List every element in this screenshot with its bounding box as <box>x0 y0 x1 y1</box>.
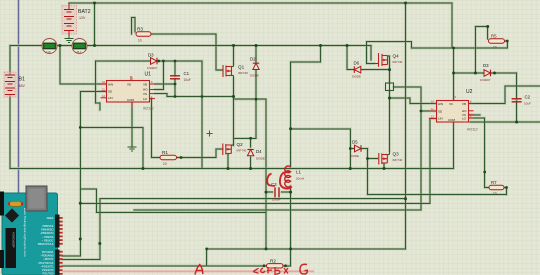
svg-text:1N4007: 1N4007 <box>147 66 158 70</box>
ammeter meter1 <box>42 39 57 55</box>
junction dot rail x143 <box>142 167 145 170</box>
junction dot D4 top <box>249 137 252 140</box>
svg-text:PD2/INT0: PD2/INT0 <box>42 268 54 272</box>
capacitor C2 <box>512 95 531 106</box>
junction dot x80 <box>79 126 82 129</box>
svg-text:COM: COM <box>127 98 135 102</box>
svg-text:100uF: 100uF <box>272 198 281 202</box>
junction dot L1 D5 row <box>289 127 292 130</box>
svg-text:PD1/TXD: PD1/TXD <box>43 272 54 275</box>
svg-text:R2: R2 <box>270 259 276 264</box>
resistor R1 <box>160 150 177 166</box>
fuse <box>386 82 394 93</box>
junction dot C2 bottom <box>515 121 518 124</box>
junction dot meters <box>59 44 62 47</box>
svg-text:IRF740: IRF740 <box>393 158 403 162</box>
svg-text:DIODE: DIODE <box>350 154 359 158</box>
svg-text:B1: B1 <box>19 77 25 83</box>
svg-text:R1: R1 <box>162 150 168 155</box>
svg-text:D2: D2 <box>250 57 256 62</box>
capacitor C1 <box>170 71 191 82</box>
junction dot rail Q3 <box>383 167 386 170</box>
junction dot rail Q2 <box>227 167 230 170</box>
svg-text:U2: U2 <box>466 89 473 95</box>
svg-text:Q2: Q2 <box>237 142 244 147</box>
battery B1 <box>4 72 25 97</box>
battery BAT2 <box>62 3 91 36</box>
junction dot x406 top <box>404 2 407 5</box>
svg-text:LIN: LIN <box>438 117 443 121</box>
svg-text:VB: VB <box>462 102 466 106</box>
junction dot Q1 drain <box>232 44 235 47</box>
svg-text:10uF: 10uF <box>524 102 531 106</box>
svg-text:D6: D6 <box>354 61 360 66</box>
junction dot fuse bottom <box>388 97 391 100</box>
resistor R3 <box>136 27 151 43</box>
svg-text:12V: 12V <box>79 16 86 20</box>
diode D4 <box>247 149 265 161</box>
junction dot U2 SD riser <box>420 110 423 113</box>
svg-text:PB5/SCK: PB5/SCK <box>43 224 54 228</box>
svg-text:1N4007: 1N4007 <box>480 78 491 82</box>
svg-text:~ PB1/OC: ~ PB1/OC <box>42 238 54 242</box>
svg-text:~PD5/T1: ~PD5/T1 <box>43 257 54 261</box>
origin marker cross <box>207 131 213 137</box>
svg-text:COM: COM <box>448 118 456 122</box>
svg-text:PD7/AIN1: PD7/AIN1 <box>42 250 54 254</box>
pin header strip upper <box>55 215 60 248</box>
svg-text:10: 10 <box>493 192 497 196</box>
junction dot D2 node <box>255 98 258 101</box>
svg-text:+48.0: +48.0 <box>75 51 82 54</box>
svg-text:Q1: Q1 <box>238 65 245 70</box>
svg-text:HIN: HIN <box>108 82 113 86</box>
junction dot C1 top <box>174 60 177 63</box>
diode D3 right <box>480 63 491 82</box>
svg-text:PB4/MISO: PB4/MISO <box>41 228 53 232</box>
svg-text:IR2112: IR2112 <box>143 107 154 111</box>
junction dot top rail <box>93 2 96 5</box>
svg-text:HIN: HIN <box>438 102 443 106</box>
junction dot D3R node <box>493 72 496 75</box>
junction dot x290 bottom row <box>289 247 292 250</box>
op-amp driver U1 <box>101 72 156 111</box>
junction dot fuse top <box>388 68 391 71</box>
junction dot U2 VC mid <box>452 72 455 75</box>
svg-text:R7: R7 <box>491 180 497 185</box>
annotation letter L <box>267 174 275 187</box>
junction dot D3 left a <box>157 60 160 63</box>
svg-text:U1: U1 <box>145 72 152 78</box>
transistor Q4 <box>374 53 403 67</box>
annotation letter G <box>300 264 307 274</box>
junction dot x406 row <box>404 197 407 200</box>
junction dot D3R left <box>474 72 477 75</box>
svg-text:~ PB2/SS: ~ PB2/SS <box>42 235 54 239</box>
junction dot U2 VC row <box>452 47 455 50</box>
junction dot C1 bottom node <box>174 95 177 98</box>
svg-text:~PD6/AIN0: ~PD6/AIN0 <box>40 254 54 258</box>
ground U1 COM <box>128 107 137 151</box>
svg-text:DIODE: DIODE <box>352 75 361 79</box>
svg-text:VB: VB <box>143 82 147 86</box>
junction dot x266 bottom <box>265 247 268 250</box>
svg-text:Q3: Q3 <box>393 152 400 157</box>
arduino board ARD1 <box>0 186 63 275</box>
svg-text:BAT2: BAT2 <box>78 9 91 15</box>
junction dot D6 rail <box>346 44 349 47</box>
junction dot D3 left b <box>162 60 165 63</box>
resistor R5 <box>489 34 505 50</box>
junction dot top drop <box>93 44 96 47</box>
junction dot R1 out <box>180 156 183 159</box>
svg-text:IRF740: IRF740 <box>238 71 248 75</box>
junction dot rail D5 <box>349 167 352 170</box>
svg-text:10: 10 <box>493 46 497 50</box>
svg-text:+0.00: +0.00 <box>45 51 52 54</box>
junction dot R7 right <box>505 186 508 189</box>
svg-text:VS: VS <box>143 92 147 96</box>
svg-text:D3: D3 <box>483 63 489 68</box>
svg-text:C1: C1 <box>184 71 190 76</box>
svg-text:D3: D3 <box>148 53 154 58</box>
diode D6 <box>352 61 361 79</box>
svg-text:ATMEGA328P: ATMEGA328P <box>12 232 15 248</box>
diode D3 left <box>147 53 158 71</box>
svg-text:DIODE: DIODE <box>256 157 265 161</box>
svg-text:10: 10 <box>138 39 142 43</box>
sheet border line <box>18 0 20 275</box>
svg-text:10: 10 <box>163 162 167 166</box>
junction dot switch node <box>232 95 235 98</box>
annotation letter A <box>195 265 203 275</box>
inductor L1 <box>285 166 304 187</box>
svg-text:10uF: 10uF <box>184 78 191 82</box>
ammeter meter2 <box>72 39 87 55</box>
junction dot x207 <box>205 248 208 251</box>
junction dot R5 corner <box>486 25 489 28</box>
svg-text:LO: LO <box>143 97 148 101</box>
svg-text:IRF740: IRF740 <box>237 149 247 153</box>
junction dot D5 anode <box>349 147 352 150</box>
svg-text:AREF: AREF <box>47 216 54 220</box>
svg-text:C2: C2 <box>525 95 531 100</box>
ground below BAT2 <box>65 36 74 43</box>
resistor R7 <box>489 180 504 196</box>
junction dot x80 rowB <box>79 202 82 205</box>
svg-text:IR2112: IR2112 <box>467 128 478 132</box>
svg-text:D4: D4 <box>256 149 262 154</box>
annotation letter C <box>280 172 292 189</box>
transistor Q1 <box>216 64 248 79</box>
svg-text:LO: LO <box>462 117 467 121</box>
op-amp driver U2 <box>429 89 478 132</box>
junction dot x202 node <box>201 95 204 98</box>
junction dot C1 VB <box>174 83 177 86</box>
junction dot R7 feed <box>483 171 486 174</box>
diode D5 <box>350 140 361 159</box>
svg-text:DIODE: DIODE <box>250 74 259 78</box>
svg-text:R5: R5 <box>491 34 497 39</box>
junction dot C3 right <box>289 191 292 194</box>
resistor R2 <box>267 259 284 269</box>
junction dot Q3 gate jog <box>366 157 369 160</box>
svg-text:Q4: Q4 <box>393 54 400 59</box>
junction dot L1 rail <box>319 44 322 47</box>
pink underline annotation <box>62 270 314 272</box>
svg-text:IRF740: IRF740 <box>393 60 403 64</box>
junction dot rail D4 <box>249 167 252 170</box>
svg-text:20mH: 20mH <box>296 177 304 181</box>
annotation scribble <box>253 267 288 275</box>
svg-text:R3: R3 <box>137 27 143 32</box>
svg-text:L1: L1 <box>296 170 301 175</box>
svg-text:~PB3/MOSI: ~PB3/MOSI <box>40 231 54 235</box>
diode D2 <box>250 57 259 78</box>
svg-text:48V: 48V <box>19 84 26 88</box>
junction dot R2 left <box>263 264 266 267</box>
junction dot x99 mid <box>98 242 101 245</box>
svg-text:D5: D5 <box>352 140 358 145</box>
junction dot R5 right <box>506 40 509 43</box>
junction dot C3 left <box>265 191 268 194</box>
svg-text:LIN: LIN <box>108 96 113 100</box>
junction dot x80 mid <box>79 238 82 241</box>
svg-text:www.TheEngineeringProjects.com: www.TheEngineeringProjects.com <box>23 208 27 257</box>
transistor Q3 <box>379 151 403 165</box>
junction dot D2 top <box>255 44 258 47</box>
svg-text:PB0/ICP/CLK: PB0/ICP/CLK <box>38 242 54 246</box>
junction dot R2 right <box>284 264 287 267</box>
svg-text:PD4/T0/XCK: PD4/T0/XCK <box>39 261 54 265</box>
svg-text:~PD3/INT1: ~PD3/INT1 <box>41 264 54 268</box>
capacitor C3 <box>271 182 281 202</box>
transistor Q2 <box>223 142 247 156</box>
pin header strip lower <box>55 250 60 275</box>
